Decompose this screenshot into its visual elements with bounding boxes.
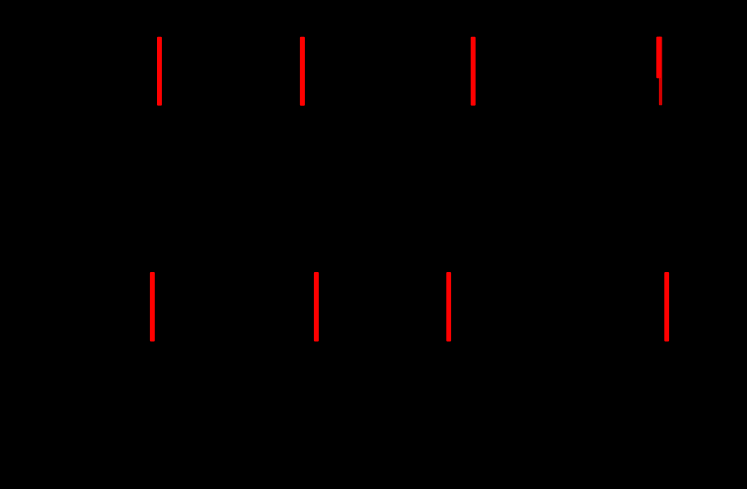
resistor R2 (red vertical element, column 2 top) [300, 37, 305, 106]
resistor R4 lead (thin dim red tail, column 4 top) [659, 37, 662, 106]
wire column 2 mid segment [301, 106, 303, 272]
wire column 3 mid segment [472, 106, 474, 272]
resistor R3 (red vertical element, column 3 top) [471, 37, 476, 106]
top rail wire (net VIN, black on black) [80, 36, 700, 38]
resistor R8 (red vertical element, column 4 bottom) [664, 272, 669, 342]
ground [382, 342, 398, 362]
resistor R6 (red vertical element, column 2 bottom) [314, 272, 319, 342]
resistor R5 (red vertical element, column 1 bottom) [150, 272, 155, 342]
resistor R1 (red vertical element, column 1 top) [157, 37, 162, 106]
resistor R4 (bright red vertical element, column 4 top, shorter) [656, 37, 661, 79]
resistor R7 (red vertical element, column 3 bottom) [446, 272, 451, 342]
wire column 4 mid segment [658, 106, 660, 272]
wire column 1 mid segment [159, 106, 161, 272]
bottom rail wire (net GND, black on black) [80, 341, 700, 343]
